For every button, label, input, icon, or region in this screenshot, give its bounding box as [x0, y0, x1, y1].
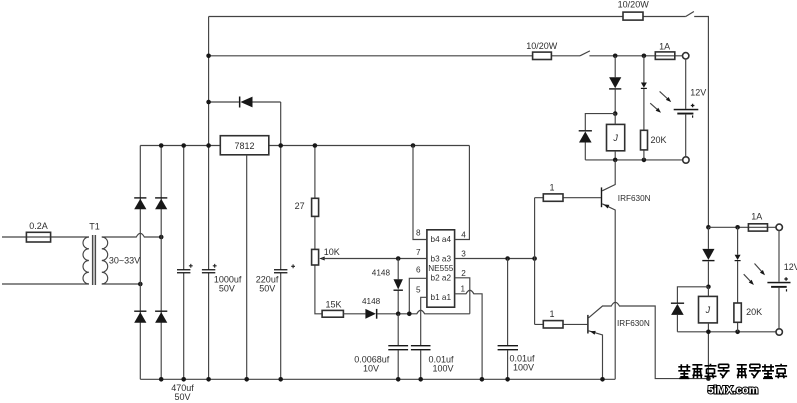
polarity + of C2 — [213, 264, 217, 268]
node relay 1 top — [613, 111, 618, 116]
svg-text:5: 5 — [416, 286, 421, 295]
svg-text:4: 4 — [461, 231, 466, 240]
wire AC line bottom — [2, 283, 89, 285]
battery 2 polarity + — [784, 277, 788, 281]
node riser diode row — [206, 100, 211, 105]
wire rail 3 top of output 2 — [708, 226, 776, 228]
terminal output 2 minus — [776, 329, 782, 335]
node rail3 start — [706, 225, 711, 230]
Q1 emitter arrow — [603, 203, 610, 209]
capacitor C2 1000uf plates — [202, 269, 215, 270]
wiper arrow of 10K — [319, 257, 324, 261]
node gnd Q2 emitter — [600, 377, 605, 382]
capacitor C6 0.01uf plates — [498, 345, 518, 346]
svg-text:6: 6 — [416, 266, 421, 275]
wire bridge right leg — [160, 146, 162, 380]
node pin7 diode junction — [396, 256, 401, 261]
svg-text:J: J — [612, 133, 618, 143]
wire output cap branch — [507, 259, 509, 380]
diode D3 bridge bottom-left — [134, 311, 146, 312]
wire LED 2 branch — [737, 227, 739, 331]
wire relay 2 bottom row — [677, 331, 776, 333]
node rail 470uf — [181, 143, 186, 148]
fuse F1 0.2A — [26, 232, 50, 242]
terminal output 1 minus — [683, 157, 689, 163]
svg-text:T1: T1 — [89, 222, 100, 232]
regulator U2 7812 — [220, 136, 268, 155]
wire timing cap branch — [397, 314, 399, 380]
fuse F3 1A — [748, 224, 767, 231]
transformer T1 core — [92, 235, 94, 285]
svg-text:0.2A: 0.2A — [29, 221, 48, 231]
wire Q2 emitter to ground — [589, 331, 603, 380]
transformer T1 primary winding — [83, 237, 89, 284]
switch S1 blade — [686, 12, 694, 17]
wire pin 4 — [455, 146, 470, 240]
wire relay 1 pins — [614, 114, 616, 160]
resistor R4 10/20W — [533, 52, 552, 59]
wire regulator input rail — [140, 145, 469, 147]
wire relay 1 flyback bracket — [585, 114, 615, 160]
svg-text:2: 2 — [461, 269, 466, 278]
node rail2 relay branch — [613, 54, 618, 59]
wire LED 1 branch — [643, 56, 645, 160]
wire 220uf / regulator output branch — [280, 102, 282, 379]
node gnd 0.01uf — [418, 377, 423, 382]
transformer T1 secondary winding — [102, 237, 108, 284]
svg-text:b4 a4: b4 a4 — [431, 235, 452, 244]
node 20K bottom junction — [642, 158, 647, 163]
transistor Q2 body — [587, 315, 588, 334]
node chain on rail — [313, 143, 318, 148]
node gnd bridge right — [159, 377, 164, 382]
capacitor C1 470uf plates — [177, 269, 190, 270]
wire AC line top — [2, 236, 89, 238]
node rail pin8 junction — [411, 143, 416, 148]
svg-text:1: 1 — [461, 285, 466, 294]
wire battery 1 leads — [685, 59, 687, 157]
svg-text:10/20W: 10/20W — [526, 41, 558, 51]
svg-text:100V: 100V — [432, 363, 453, 373]
svg-text:3: 3 — [461, 250, 466, 259]
wire pin 3 output — [455, 258, 535, 260]
svg-text:10K: 10K — [324, 247, 340, 257]
capacitor C4 0.0068uf plates — [388, 345, 408, 346]
node rail2 LED branch — [642, 54, 647, 59]
node Q2 collector relay return — [706, 376, 711, 381]
node secondary top junction — [159, 235, 164, 240]
battery B1 12V plates — [674, 109, 699, 111]
Q2 emitter arrow — [589, 329, 595, 334]
watermark chinese characters — [678, 364, 787, 379]
wire vertical 4148 branch — [397, 259, 399, 314]
wire capacitor C1 branch — [183, 146, 185, 380]
svg-text:50V: 50V — [259, 283, 275, 293]
svg-text:4148: 4148 — [362, 297, 381, 306]
wire relay 2 pins — [707, 287, 709, 379]
wire main riser / C2 branch — [208, 17, 210, 380]
svg-text:5iMX.com: 5iMX.com — [708, 384, 758, 396]
LED 2 light arrow a — [755, 264, 763, 273]
resistor R6 27 — [312, 198, 319, 216]
capacitor C5 0.01uf plates — [411, 345, 431, 346]
node gnd 470uf — [181, 377, 186, 382]
svg-text:b2 a2: b2 a2 — [431, 273, 452, 282]
resistor R8 15K — [322, 310, 343, 317]
wire base drive vertical — [534, 198, 536, 325]
node rail3 LED branch — [735, 225, 740, 230]
wire bridge left leg — [139, 146, 141, 380]
svg-text:50V: 50V — [174, 392, 190, 402]
LED D8 indicator — [641, 83, 647, 88]
svg-text:100V: 100V — [513, 363, 534, 373]
battery 1 polarity - — [692, 115, 693, 117]
wire pin 8 — [413, 146, 427, 240]
resistor R5 20K — [641, 130, 648, 150]
svg-text:7: 7 — [416, 248, 421, 257]
wire relay 1 feed — [614, 56, 616, 114]
fuse F2 1A — [655, 52, 675, 60]
svg-text:30~33V: 30~33V — [109, 256, 140, 266]
node 20K 2 bottom junction — [735, 330, 740, 335]
wire 27/10K/15K chain — [315, 146, 322, 314]
svg-text:10/20W: 10/20W — [618, 0, 650, 9]
wire bypass diode row — [209, 101, 281, 103]
battery 2 polarity - — [786, 289, 787, 291]
svg-text:NE555: NE555 — [428, 264, 453, 273]
wire pin 7 to wiper — [322, 258, 427, 260]
wire rail 2 — [209, 55, 683, 57]
terminal output 1 plus — [683, 53, 689, 59]
svg-text:27: 27 — [295, 201, 305, 211]
LED 2 light arrow b — [744, 274, 752, 282]
wire pin 6 — [409, 278, 427, 314]
relay K1 coil box — [607, 124, 625, 150]
wire battery 2 leads — [778, 231, 780, 329]
wire 7812 ground pin — [246, 155, 248, 379]
svg-text:8: 8 — [416, 229, 421, 238]
svg-text:4148: 4148 — [372, 268, 391, 277]
diode D10 4148 horizontal — [365, 309, 376, 319]
node relay 2 top — [706, 285, 711, 290]
svg-text:10V: 10V — [363, 363, 379, 373]
LED 1 light arrow a — [660, 91, 669, 100]
wire Q1 emitter to ground — [602, 204, 615, 379]
node row diode junction — [396, 312, 401, 317]
svg-text:b1 a1: b1 a1 — [431, 293, 452, 302]
resistor R9 1 — [543, 194, 563, 201]
LED 1 light arrow b — [650, 103, 659, 111]
node pin3 cap junction — [505, 256, 510, 261]
battery 1 polarity + — [691, 104, 695, 108]
diode D7 flyback relay 1 — [579, 130, 592, 131]
wire Q2 collector (hop over Q1 emitter line) — [589, 302, 709, 378]
polarity + of C3 — [291, 264, 295, 268]
node gnd 1000uf — [206, 377, 211, 382]
svg-text:20K: 20K — [651, 135, 667, 145]
node gnd pin1 — [480, 377, 485, 382]
diode D11 series relay 2 — [702, 249, 714, 260]
svg-text:1: 1 — [549, 182, 554, 192]
svg-text:7812: 7812 — [234, 141, 254, 151]
svg-text:1: 1 — [549, 309, 554, 319]
svg-text:15K: 15K — [326, 300, 342, 310]
diode D1 bridge top-left — [134, 197, 146, 198]
wire secondary top to bridge (hop over left leg) — [102, 233, 161, 237]
wire ground rail — [140, 378, 615, 380]
node gnd output cap — [505, 377, 510, 382]
wire top rail 1 — [209, 17, 709, 228]
svg-text:J: J — [705, 305, 711, 315]
switch S2 blade — [580, 51, 590, 56]
diode D2 bridge top-right — [155, 197, 167, 198]
terminal output 2 plus — [776, 224, 782, 230]
wire pin 2 — [455, 278, 470, 314]
wire Q2 base row — [535, 323, 588, 325]
diode D6 series relay 1 — [609, 77, 621, 88]
node gnd 0.0068uf — [396, 377, 401, 382]
node riser rail2 — [206, 54, 211, 59]
wire relay 2 feed — [707, 227, 709, 286]
node pin3 base line junction — [532, 256, 537, 261]
wire relay 1 bottom row — [585, 159, 682, 161]
node row pin6 junction — [407, 312, 412, 317]
svg-text:12V: 12V — [690, 87, 706, 97]
svg-text:IRF630N: IRF630N — [618, 194, 651, 203]
node rail riser — [206, 143, 211, 148]
transistor Q1 body — [601, 187, 602, 207]
wire timing row (hop over pin5 line) — [343, 310, 469, 314]
node relay 2 bottom pin — [706, 330, 711, 335]
wire secondary bottom to bridge — [102, 283, 141, 285]
diode D5 bypass (cathode left) — [239, 97, 241, 108]
resistor R10 1 — [543, 321, 563, 328]
LED D13 indicator — [735, 255, 741, 260]
wire Q1 base row — [535, 197, 601, 199]
resistor R11 20K — [734, 303, 741, 322]
wire pin 1 to ground (hop over pin2) — [455, 290, 483, 379]
svg-text:1A: 1A — [751, 212, 762, 222]
svg-text:1A: 1A — [659, 42, 670, 52]
wire relay 2 flyback bracket — [677, 287, 708, 332]
node gnd 7812 — [244, 377, 249, 382]
node relay 1 bottom pin — [613, 158, 618, 163]
node secondary bottom junction — [138, 282, 143, 287]
wire Q1 collector — [602, 160, 615, 191]
node rail bridge right — [159, 143, 164, 148]
IC U1 NE555 box — [427, 230, 455, 307]
resistor R3 10/20W top — [623, 12, 643, 20]
diode D4 bridge bottom-right — [155, 311, 167, 312]
svg-text:50V: 50V — [219, 283, 235, 293]
potentiometer R7 10K — [312, 249, 319, 265]
diode D9 4148 vertical — [394, 279, 403, 289]
node gnd 220uf — [278, 377, 283, 382]
capacitor C3 220uf plates — [274, 269, 287, 270]
polarity + of C1 — [189, 264, 193, 268]
relay K2 coil box — [699, 296, 718, 323]
battery B2 12V plates — [767, 282, 790, 284]
wire pin 5 — [421, 297, 427, 379]
svg-text:20K: 20K — [746, 307, 762, 317]
node rail 220uf — [278, 143, 283, 148]
diode D12 flyback relay 2 — [671, 303, 684, 304]
svg-text:b3 a3: b3 a3 — [431, 254, 452, 263]
svg-text:IRF630N: IRF630N — [617, 319, 650, 328]
svg-text:12V: 12V — [784, 262, 797, 272]
